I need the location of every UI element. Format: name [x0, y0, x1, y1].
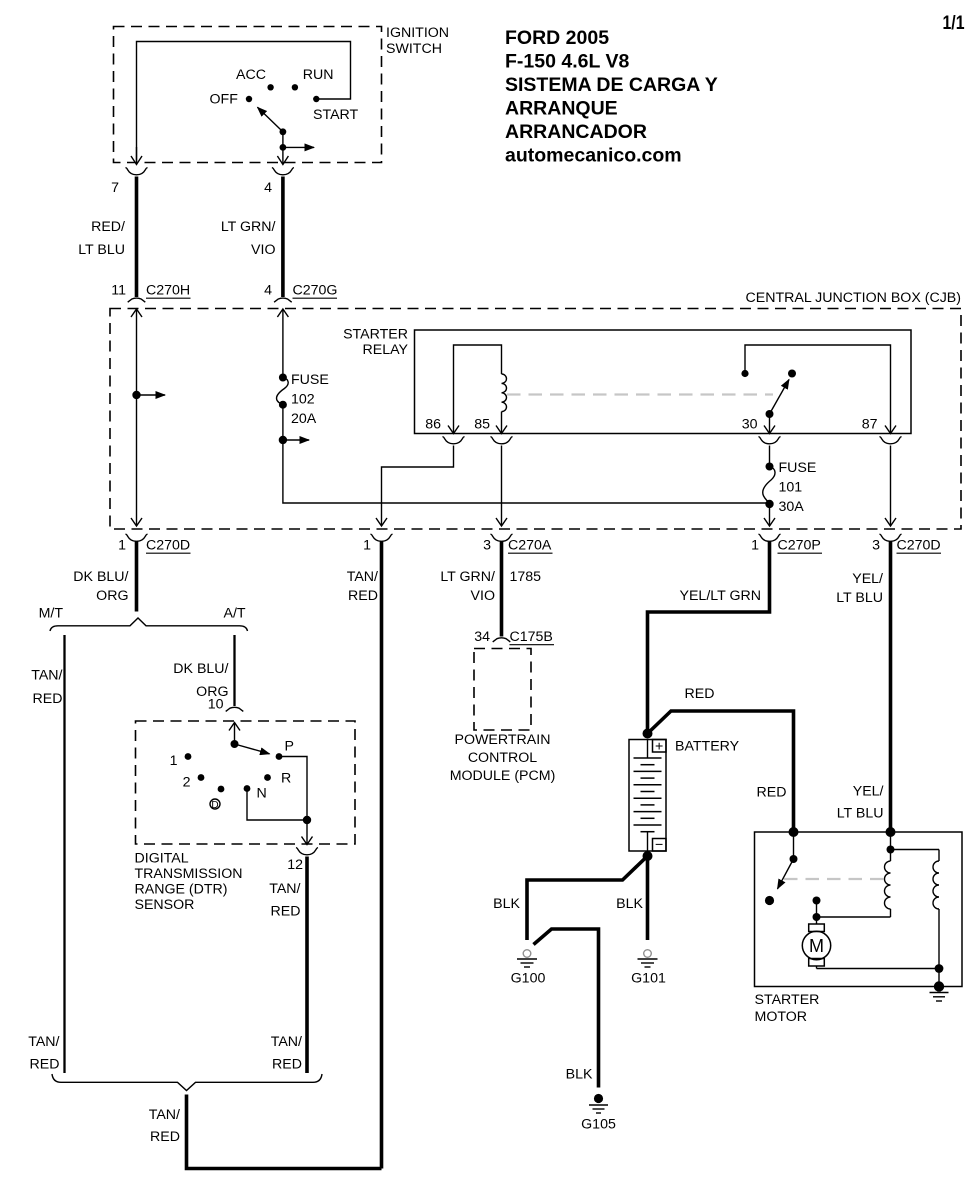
wire BLK to G100: [493, 856, 647, 940]
svg-text:34: 34: [474, 629, 490, 645]
connector relay pin 86: [443, 437, 465, 444]
svg-text:MOTOR: MOTOR: [755, 1009, 808, 1025]
node DTR output junction: [303, 816, 311, 824]
starter windings: [817, 832, 940, 969]
wire LT GRN/VIO 1785: [440, 541, 541, 637]
relay linkage dashed: [507, 393, 773, 395]
svg-text:C270D: C270D: [897, 538, 941, 554]
DTR sensor box: [136, 721, 356, 844]
svg-text:30A: 30A: [779, 499, 805, 515]
starter relay box: [415, 330, 912, 434]
connector C270D pin 1 left: [118, 534, 190, 554]
svg-text:IGNITION: IGNITION: [386, 25, 449, 41]
svg-text:BLK: BLK: [566, 1067, 593, 1083]
svg-text:TAN/: TAN/: [31, 668, 62, 684]
svg-text:87: 87: [862, 417, 878, 433]
wire YEL/LT BLU label second: [837, 784, 884, 822]
connector pin 7: [111, 168, 147, 197]
svg-text:ARRANQUE: ARRANQUE: [505, 98, 618, 120]
node CJB left junction arrow: [132, 391, 165, 399]
svg-text:RANGE (DTR): RANGE (DTR): [135, 882, 228, 898]
svg-text:102: 102: [291, 392, 315, 408]
svg-text:SISTEMA DE CARGA Y: SISTEMA DE CARGA Y: [505, 74, 718, 96]
PCM box: [474, 649, 531, 731]
ignition switch label: [386, 25, 449, 57]
svg-text:C270P: C270P: [778, 538, 821, 554]
svg-text:G105: G105: [581, 1117, 616, 1133]
svg-text:BLK: BLK: [616, 896, 643, 912]
wire fuse101 to CJB exit: [764, 504, 775, 526]
svg-text:P: P: [285, 739, 294, 755]
svg-text:TAN/: TAN/: [149, 1107, 180, 1123]
svg-text:TAN/: TAN/: [28, 1034, 59, 1050]
starter relay label: [343, 327, 408, 359]
svg-text:STARTER: STARTER: [343, 327, 408, 343]
connector C175B pin 34: [474, 629, 554, 645]
central junction box CJB: [110, 309, 961, 530]
svg-text:F-150 4.6L V8: F-150 4.6L V8: [505, 51, 629, 73]
ignition switch output node arrow: [280, 132, 315, 151]
ground G105: [581, 1094, 616, 1133]
wire TAN/RED merge output: [149, 1095, 382, 1169]
svg-text:RED: RED: [685, 686, 715, 702]
svg-text:YEL/: YEL/: [852, 571, 883, 587]
svg-text:START: START: [313, 107, 359, 123]
splice M/T A/T branch: [39, 606, 248, 632]
title block text: [505, 27, 718, 167]
node DTR N: [244, 785, 267, 801]
connector relay pin 30: [759, 437, 781, 444]
svg-text:3: 3: [872, 538, 880, 554]
svg-text:85: 85: [474, 417, 490, 433]
svg-text:RED: RED: [348, 588, 378, 604]
wire RED battery to starter: [648, 686, 794, 832]
svg-text:RED: RED: [272, 1057, 302, 1073]
node OFF: [210, 92, 253, 108]
svg-text:1: 1: [363, 538, 371, 554]
wire DTR P to output: [279, 757, 307, 821]
svg-text:4: 4: [264, 283, 272, 299]
svg-text:CONTROL: CONTROL: [468, 750, 537, 766]
svg-text:TAN/: TAN/: [271, 1034, 302, 1050]
starter linkage dashed: [784, 878, 884, 880]
svg-text:SWITCH: SWITCH: [386, 41, 442, 57]
svg-text:DK BLU/: DK BLU/: [173, 661, 228, 677]
motor M: [802, 897, 943, 973]
DTR selector arm: [231, 740, 270, 754]
node DTR R: [264, 771, 291, 787]
svg-text:7: 7: [111, 180, 119, 196]
wire DK BLU/ORG A/T branch: [173, 635, 234, 706]
svg-text:FUSE: FUSE: [779, 460, 817, 476]
connector C270G pin 4: [264, 283, 337, 303]
svg-text:C175B: C175B: [510, 629, 553, 645]
svg-text:RED/: RED/: [91, 219, 125, 235]
ignition switch box: [114, 27, 382, 163]
connector pin 1 tan/red: [363, 534, 392, 554]
svg-text:ORG: ORG: [96, 588, 128, 604]
battery: [629, 729, 740, 862]
svg-text:1785: 1785: [510, 569, 542, 585]
ignition switch wiper arm: [258, 107, 287, 135]
svg-text:−: −: [655, 837, 663, 853]
wire ignition internal feed: [137, 42, 351, 162]
svg-text:MODULE (PCM): MODULE (PCM): [450, 768, 556, 784]
node START: [313, 96, 359, 123]
svg-text:CENTRAL JUNCTION BOX (CJB): CENTRAL JUNCTION BOX (CJB): [746, 290, 961, 306]
svg-text:RUN: RUN: [303, 67, 334, 83]
node RED entry: [789, 827, 799, 837]
svg-text:YEL/LT GRN: YEL/LT GRN: [680, 588, 761, 604]
svg-text:C270G: C270G: [293, 283, 338, 299]
svg-text:1: 1: [751, 538, 759, 554]
ground G101: [631, 950, 666, 987]
connector C270A pin 3: [483, 534, 552, 554]
wire DTR N to output: [247, 789, 307, 821]
svg-text:LT GRN/: LT GRN/: [440, 569, 495, 585]
wire BLK to G105: [534, 929, 599, 1088]
svg-text:DK BLU/: DK BLU/: [73, 569, 128, 585]
starter motor caption: [755, 992, 820, 1025]
splice TAN/RED merge: [28, 1034, 322, 1091]
svg-text:C270A: C270A: [508, 538, 552, 554]
svg-text:101: 101: [779, 480, 803, 496]
svg-text:30: 30: [742, 417, 758, 433]
svg-text:2: 2: [183, 775, 191, 791]
svg-text:1: 1: [118, 538, 126, 554]
svg-text:86: 86: [425, 417, 441, 433]
svg-text:M: M: [809, 936, 824, 956]
svg-text:12: 12: [287, 857, 303, 873]
wire BLK to G101: [616, 856, 647, 940]
wire RED/LT BLU: [78, 177, 136, 298]
svg-text:20A: 20A: [291, 411, 317, 427]
svg-text:M/T: M/T: [39, 606, 64, 622]
svg-text:R: R: [281, 771, 291, 787]
svg-text:G100: G100: [511, 971, 546, 987]
svg-text:RELAY: RELAY: [363, 342, 409, 358]
svg-text:D: D: [211, 800, 218, 811]
wire relay 86 to CJB exit: [376, 446, 454, 527]
svg-text:TRANSMISSION: TRANSMISSION: [135, 866, 243, 882]
wire YEL/LT GRN from C270P: [648, 541, 770, 734]
wire TAN/RED from DTR 12: [269, 857, 307, 1074]
svg-text:YEL/: YEL/: [853, 784, 884, 800]
svg-text:SENSOR: SENSOR: [135, 897, 195, 913]
svg-text:C270H: C270H: [146, 283, 190, 299]
wire LT GRN/VIO: [221, 177, 283, 298]
wire DTR pin 12 exit: [302, 820, 313, 845]
node RUN: [292, 67, 334, 91]
svg-text:1: 1: [170, 753, 178, 769]
svg-text:G101: G101: [631, 971, 666, 987]
DTR sensor caption: [135, 851, 243, 914]
relay coil branch pins 86 85: [425, 345, 507, 434]
node DTR 2: [183, 774, 205, 790]
svg-text:STARTER: STARTER: [755, 992, 820, 1008]
starter solenoid switch: [765, 832, 798, 905]
connector C270D pin 3 right: [872, 534, 941, 554]
node ACC: [236, 67, 274, 91]
connector pin 4: [264, 168, 294, 197]
ground G100: [511, 950, 546, 987]
wire CJB fuse column upper: [277, 309, 288, 378]
svg-text:RED: RED: [33, 691, 63, 707]
wire relay 87 to CJB exit: [885, 446, 896, 527]
svg-text:ARRANCADOR: ARRANCADOR: [505, 121, 647, 143]
svg-text:VIO: VIO: [471, 588, 495, 604]
connector relay pin 87: [880, 437, 902, 444]
node DTR D: [210, 786, 224, 811]
node DTR P: [276, 739, 294, 760]
wire pin7 exit: [131, 147, 142, 165]
svg-text:TAN/: TAN/: [347, 569, 378, 585]
connector DTR pin 10: [208, 697, 244, 713]
svg-text:LT BLU: LT BLU: [78, 242, 125, 258]
wire CJB left column: [131, 309, 142, 526]
svg-text:LT GRN/: LT GRN/: [221, 219, 276, 235]
fuse 102 20A: [277, 372, 329, 427]
node fuse102 output junction arrow: [279, 405, 309, 444]
svg-text:FUSE: FUSE: [291, 372, 329, 388]
svg-text:FORD 2005: FORD 2005: [505, 27, 609, 49]
svg-text:LT BLU: LT BLU: [836, 590, 883, 606]
svg-text:BLK: BLK: [493, 896, 520, 912]
svg-text:RED: RED: [757, 785, 787, 801]
relay switch contacts pins 30 87: [741, 345, 896, 434]
PCM caption: [450, 732, 556, 784]
svg-text:A/T: A/T: [224, 606, 246, 622]
wire pin4 exit: [277, 147, 288, 164]
svg-text:RED: RED: [271, 904, 301, 920]
svg-text:ACC: ACC: [236, 67, 266, 83]
wire YEL/LT BLU from C270D: [836, 541, 890, 832]
svg-text:RED: RED: [150, 1129, 180, 1145]
svg-text:3: 3: [483, 538, 491, 554]
svg-text:C270D: C270D: [146, 538, 190, 554]
starter ground: [930, 969, 949, 1002]
connector C270H pin 11: [111, 283, 190, 303]
starter motor box: [755, 832, 963, 987]
svg-text:LT BLU: LT BLU: [837, 806, 884, 822]
node DTR 1: [170, 753, 192, 769]
wire fuse102 to fuse101: [283, 440, 770, 503]
wire TAN/RED M/T branch: [31, 635, 64, 1073]
svg-text:10: 10: [208, 697, 224, 713]
svg-text:automecanico.com: automecanico.com: [505, 145, 682, 167]
svg-text:BATTERY: BATTERY: [675, 739, 740, 755]
svg-text:+: +: [655, 739, 663, 755]
svg-text:11: 11: [111, 283, 126, 299]
svg-text:POWERTRAIN: POWERTRAIN: [455, 732, 551, 748]
connector DTR pin 12: [287, 848, 318, 874]
svg-text:VIO: VIO: [251, 242, 275, 258]
connector C270P pin 1: [751, 534, 822, 554]
connector relay pin 85: [491, 437, 513, 444]
svg-text:N: N: [257, 786, 267, 802]
svg-text:RED: RED: [30, 1057, 60, 1073]
wire DK BLU/ORG from C270D: [73, 541, 136, 612]
svg-text:1/1: 1/1: [943, 12, 965, 34]
node YEL entry: [886, 827, 896, 837]
fuse 101 30A: [763, 446, 817, 516]
wire TAN/RED long from pin 1: [347, 541, 382, 1169]
wire DTR entry: [229, 723, 240, 745]
svg-text:DIGITAL: DIGITAL: [135, 851, 189, 867]
svg-text:TAN/: TAN/: [269, 881, 300, 897]
wire relay 85 to CJB exit: [496, 446, 507, 527]
svg-text:4: 4: [264, 180, 272, 196]
svg-text:OFF: OFF: [210, 92, 239, 108]
